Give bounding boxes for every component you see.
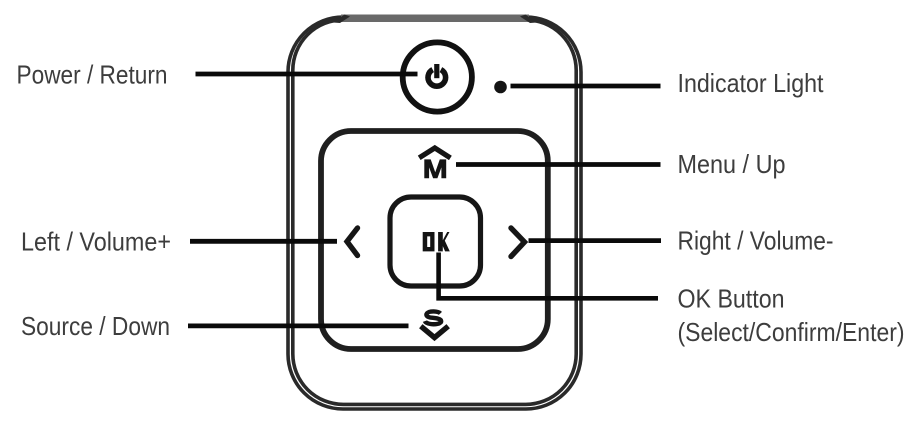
device body outer outline [288, 17, 581, 409]
power button circle [403, 42, 472, 111]
power icon arc [428, 70, 446, 87]
leader line power [196, 72, 418, 77]
svg-text:Left / Volume+: Left / Volume+ [21, 227, 171, 257]
OK text K glyph [438, 232, 450, 251]
d-pad ring [321, 131, 548, 349]
leader line menu [456, 162, 661, 167]
OK button outline [390, 197, 481, 286]
leader line left/volume [190, 239, 337, 244]
source S letter [425, 311, 441, 324]
leader line right/volume [529, 238, 662, 243]
svg-text:OK Button: OK Button [678, 284, 785, 314]
source down chevron [421, 326, 448, 337]
power icon bar [434, 64, 439, 78]
svg-text:Right / Volume-: Right / Volume- [678, 226, 834, 256]
left chevron [347, 228, 358, 256]
leader line indicator [511, 84, 661, 89]
top face bar [341, 15, 529, 23]
top bar right wedge [520, 15, 537, 24]
leader line source [188, 323, 409, 328]
svg-text:Indicator Light: Indicator Light [678, 68, 825, 98]
OK text O glyph [423, 232, 435, 251]
svg-text:(Select/Confirm/Enter): (Select/Confirm/Enter) [678, 317, 905, 347]
top bar left wedge [333, 15, 350, 24]
menu M letter [424, 159, 446, 178]
menu/up roof icon [419, 148, 450, 158]
svg-text:Source / Down: Source / Down [21, 311, 170, 341]
svg-text:Menu / Up: Menu / Up [678, 149, 786, 179]
leader line OK elbow [439, 253, 658, 299]
right chevron [511, 228, 525, 257]
indicator light dot [494, 81, 507, 94]
device body inner outline [293, 20, 576, 405]
svg-text:Power / Return: Power / Return [17, 60, 168, 90]
